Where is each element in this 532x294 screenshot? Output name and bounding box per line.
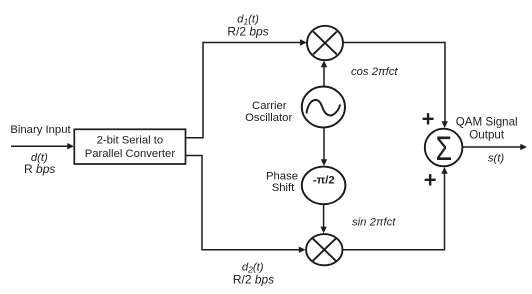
svg-text:Output: Output <box>469 128 505 141</box>
wire arrow into summer bottom <box>441 167 447 174</box>
wire arrow into bottom mixer <box>299 247 306 253</box>
svg-text:Shift: Shift <box>272 182 295 194</box>
svg-text:cos 2πfct: cos 2πfct <box>351 66 398 78</box>
wire output arrow <box>462 144 527 150</box>
svg-text:R bps: R bps <box>24 162 55 176</box>
svg-text:Oscillator: Oscillator <box>245 112 292 124</box>
wire arrow into summer top <box>442 121 448 128</box>
wire bottom mixer to summer <box>343 174 445 250</box>
svg-text:Σ: Σ <box>436 130 452 168</box>
svg-text:Carrier: Carrier <box>252 100 287 112</box>
wire top mixer to summer <box>343 43 445 122</box>
svg-text:QAM Signal: QAM Signal <box>456 115 518 128</box>
svg-text:-π/2: -π/2 <box>313 174 335 186</box>
wire top stub from converter up to top mixer <box>186 43 301 138</box>
svg-text:R/2 bps: R/2 bps <box>227 25 268 39</box>
summer S1 (sigma adder) <box>425 129 463 167</box>
wire oscillator to top mixer arrow <box>321 61 327 86</box>
svg-text:+: + <box>422 107 435 132</box>
multiplier M2 (bottom mixer) <box>306 234 342 265</box>
svg-text:+: + <box>424 168 437 193</box>
svg-text:s(t): s(t) <box>488 153 505 165</box>
svg-text:Phase: Phase <box>266 171 298 183</box>
oscillator G1 (carrier oscillator with sine) <box>302 87 345 128</box>
wire input arrow into converter <box>11 143 74 149</box>
multiplier M1 (top mixer) <box>307 26 343 60</box>
svg-text:R/2 bps: R/2 bps <box>233 273 274 287</box>
wire phase shifter to bottom mixer arrow <box>320 204 326 233</box>
phase shifter U2 (-pi/2) <box>302 167 346 205</box>
sine wave inside oscillator <box>307 100 341 116</box>
wire arrow into top mixer <box>300 39 307 45</box>
svg-text:Binary Input: Binary Input <box>10 124 71 136</box>
block U1 2-bit Serial to Parallel Converter <box>74 129 185 164</box>
wire bottom stub from converter down to bottom mixer <box>186 156 300 250</box>
svg-text:2-bit Serial to: 2-bit Serial to <box>97 135 164 147</box>
svg-text:sin 2πfct: sin 2πfct <box>352 216 396 228</box>
svg-text:Parallel Converter: Parallel Converter <box>85 148 176 160</box>
wire oscillator to phase shifter arrow <box>321 128 327 166</box>
